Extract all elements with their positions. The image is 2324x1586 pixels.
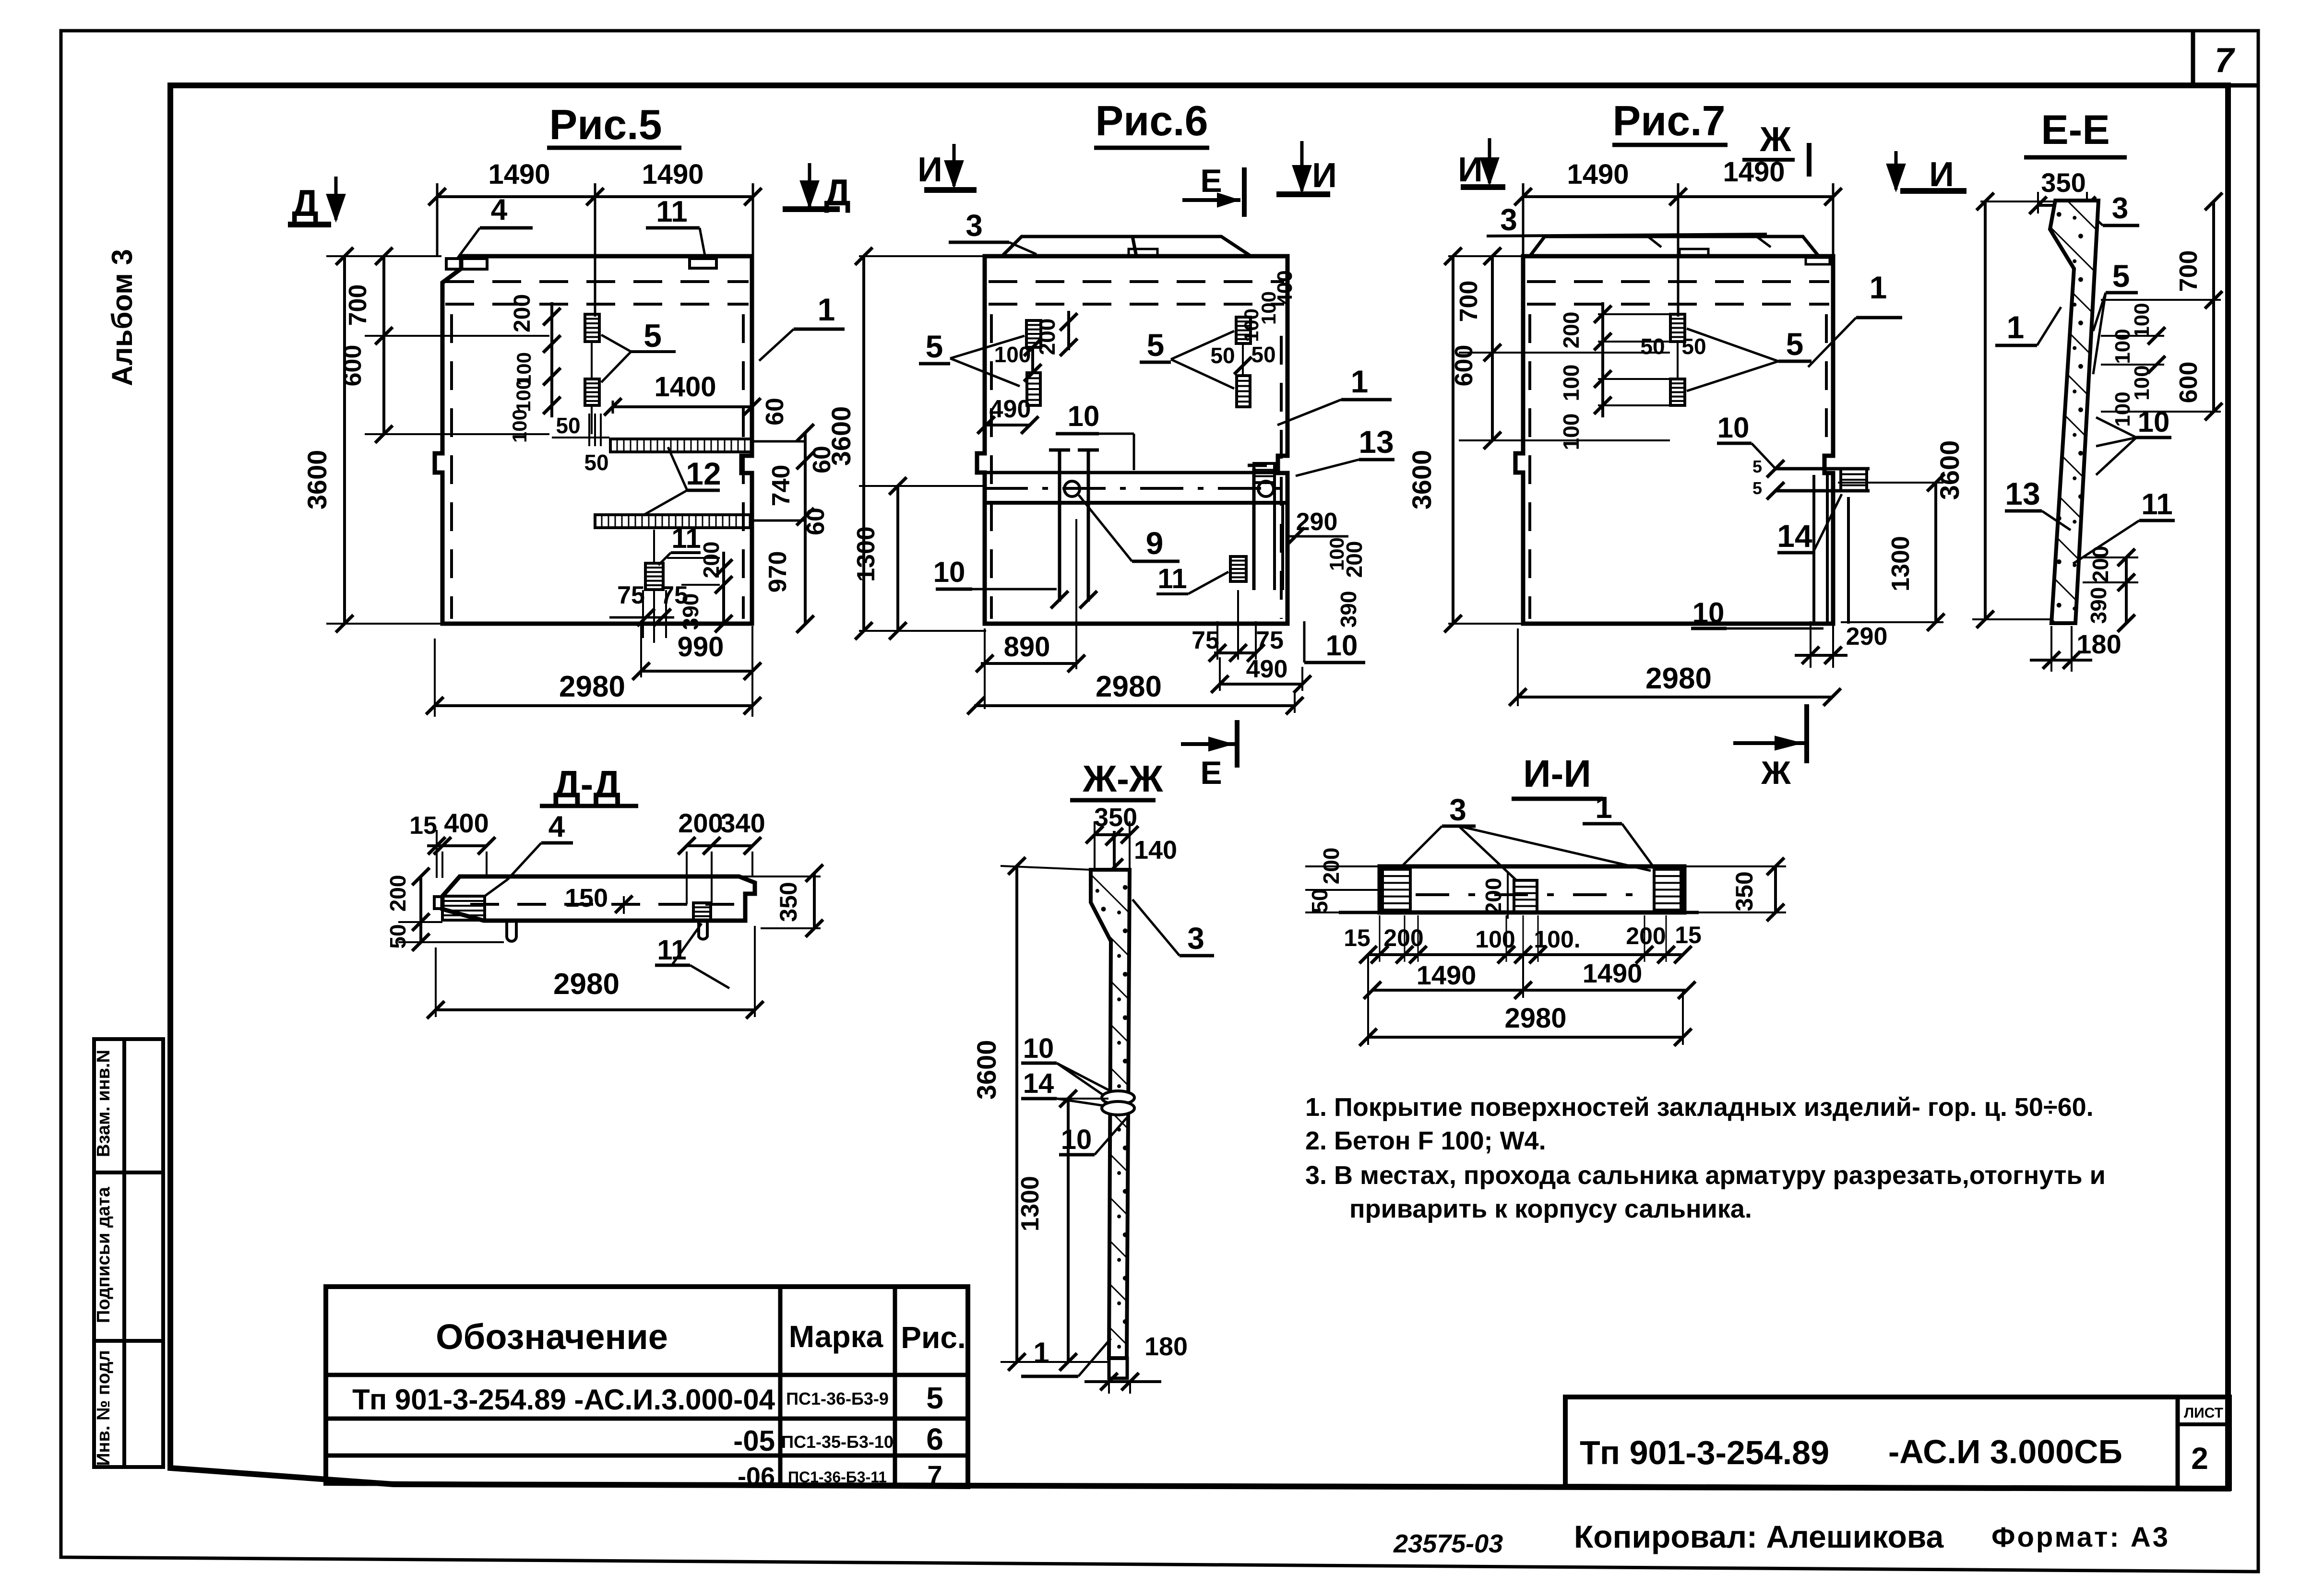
svg-text:10: 10 xyxy=(1326,629,1358,662)
svg-text:Д-Д: Д-Д xyxy=(553,763,621,805)
svg-text:1300: 1300 xyxy=(1887,536,1915,592)
svg-text:5: 5 xyxy=(1147,327,1165,363)
svg-text:Копировал: Алешикова: Копировал: Алешикова xyxy=(1574,1519,1944,1554)
svg-text:100: 100 xyxy=(1325,537,1348,571)
svg-text:приварить к корпусу сальник: приварить к корпусу сальника. xyxy=(1349,1195,1752,1223)
svg-text:60: 60 xyxy=(802,508,830,535)
svg-text:970: 970 xyxy=(764,551,792,593)
svg-text:4: 4 xyxy=(491,193,508,226)
svg-text:100: 100 xyxy=(2111,329,2134,364)
svg-text:50: 50 xyxy=(385,924,410,948)
svg-text:350: 350 xyxy=(2041,167,2086,198)
svg-text:60: 60 xyxy=(761,398,789,426)
svg-text:14: 14 xyxy=(1777,518,1812,554)
svg-text:10: 10 xyxy=(1692,597,1725,629)
svg-text:140: 140 xyxy=(1134,836,1177,864)
svg-text:3: 3 xyxy=(1187,921,1204,956)
svg-text:5: 5 xyxy=(1752,478,1762,498)
svg-text:1. Покрытие поверхностей зак: 1. Покрытие поверхностей закладных издел… xyxy=(1305,1093,2094,1122)
svg-text:ПС1-35-Б3-10: ПС1-35-Б3-10 xyxy=(781,1432,894,1452)
svg-text:50: 50 xyxy=(1210,343,1235,368)
svg-text:11: 11 xyxy=(671,523,701,554)
svg-text:100: 100 xyxy=(1475,926,1515,953)
svg-text:200: 200 xyxy=(510,294,535,332)
svg-text:2. Бетон F 100; W4.: 2. Бетон F 100; W4. xyxy=(1305,1126,1546,1155)
svg-text:3. В местах, прохода сальника: 3. В местах, прохода сальника арматуру р… xyxy=(1305,1161,2106,1190)
svg-text:4: 4 xyxy=(548,810,565,843)
svg-text:2980: 2980 xyxy=(553,968,620,1001)
svg-text:13: 13 xyxy=(1359,424,1394,460)
svg-text:1490: 1490 xyxy=(642,159,703,190)
svg-text:990: 990 xyxy=(678,631,724,663)
svg-text:ПС1-36-Б3-11: ПС1-36-Б3-11 xyxy=(788,1468,887,1486)
svg-text:И: И xyxy=(1312,156,1337,195)
svg-text:1: 1 xyxy=(1595,790,1612,825)
svg-text:50: 50 xyxy=(1251,342,1275,367)
svg-text:100: 100 xyxy=(1240,308,1263,342)
svg-text:9: 9 xyxy=(1146,525,1164,561)
svg-text:Е-Е: Е-Е xyxy=(2041,107,2109,153)
svg-text:75: 75 xyxy=(617,581,645,609)
svg-text:Подписьи дата: Подписьи дата xyxy=(94,1186,114,1323)
svg-text:15: 15 xyxy=(1344,924,1371,951)
svg-text:7: 7 xyxy=(927,1460,942,1490)
svg-text:350: 350 xyxy=(1731,871,1758,911)
svg-text:10: 10 xyxy=(1023,1033,1054,1064)
svg-text:1: 1 xyxy=(818,292,835,327)
svg-text:3600: 3600 xyxy=(1406,450,1437,510)
svg-text:75: 75 xyxy=(660,581,688,609)
svg-text:-АС.И 3.000СБ: -АС.И 3.000СБ xyxy=(1888,1433,2122,1470)
svg-text:1490: 1490 xyxy=(1583,958,1643,988)
svg-text:50: 50 xyxy=(1307,888,1332,913)
svg-text:100: 100 xyxy=(2111,391,2134,426)
svg-text:2980: 2980 xyxy=(1096,670,1162,703)
svg-text:Рис.7: Рис.7 xyxy=(1612,97,1725,144)
svg-text:Тп 901-3-254.89: Тп 901-3-254.89 xyxy=(1580,1434,1829,1471)
svg-text:10: 10 xyxy=(1717,412,1750,444)
svg-text:ЛИСТ: ЛИСТ xyxy=(2184,1405,2223,1421)
svg-text:Е: Е xyxy=(1200,755,1222,791)
svg-text:390: 390 xyxy=(1336,591,1361,628)
svg-text:700: 700 xyxy=(344,284,372,326)
svg-text:3600: 3600 xyxy=(826,406,856,466)
svg-text:75: 75 xyxy=(1192,627,1219,654)
svg-text:1: 1 xyxy=(1351,364,1369,399)
svg-text:490: 490 xyxy=(989,395,1031,423)
svg-text:5: 5 xyxy=(926,1381,943,1415)
svg-text:-05: -05 xyxy=(733,1425,775,1457)
svg-text:-06: -06 xyxy=(738,1462,775,1491)
svg-text:1490: 1490 xyxy=(488,159,550,190)
svg-text:ПС1-36-Б3-9: ПС1-36-Б3-9 xyxy=(786,1389,889,1408)
svg-text:1400: 1400 xyxy=(654,371,716,402)
svg-text:600: 600 xyxy=(2175,362,2203,403)
svg-text:23575-03: 23575-03 xyxy=(1393,1529,1503,1558)
svg-text:100: 100 xyxy=(1559,414,1584,450)
svg-text:Ж: Ж xyxy=(1761,755,1791,791)
svg-text:700: 700 xyxy=(2175,250,2203,292)
svg-text:490: 490 xyxy=(1246,655,1288,683)
svg-text:1490: 1490 xyxy=(1567,159,1629,190)
svg-text:Ж-Ж: Ж-Ж xyxy=(1083,757,1163,800)
svg-text:180: 180 xyxy=(2076,629,2121,659)
svg-text:150: 150 xyxy=(565,884,608,912)
svg-text:2: 2 xyxy=(2191,1441,2208,1476)
svg-text:12: 12 xyxy=(686,456,721,491)
svg-text:50: 50 xyxy=(556,413,580,438)
svg-text:200: 200 xyxy=(678,808,723,838)
svg-text:5: 5 xyxy=(2112,258,2130,294)
svg-text:15: 15 xyxy=(1675,922,1702,948)
svg-text:3: 3 xyxy=(1449,793,1466,827)
svg-text:200: 200 xyxy=(385,875,410,912)
svg-text:Марка: Марка xyxy=(789,1319,883,1354)
svg-text:350: 350 xyxy=(775,882,802,922)
svg-text:400: 400 xyxy=(444,808,489,838)
svg-text:5: 5 xyxy=(644,318,662,354)
svg-text:1490: 1490 xyxy=(1417,960,1477,990)
svg-text:14: 14 xyxy=(1023,1068,1054,1099)
svg-text:100: 100 xyxy=(508,409,531,443)
svg-text:200: 200 xyxy=(1559,312,1584,349)
svg-text:Формат: А3: Формат: А3 xyxy=(1991,1522,2170,1553)
svg-text:180: 180 xyxy=(1144,1332,1188,1361)
svg-text:13: 13 xyxy=(2005,476,2040,511)
svg-text:3600: 3600 xyxy=(302,450,332,510)
svg-text:И-И: И-И xyxy=(1523,752,1591,795)
svg-text:50: 50 xyxy=(584,450,608,475)
svg-text:200: 200 xyxy=(2088,546,2113,583)
svg-text:200: 200 xyxy=(1035,319,1060,355)
svg-text:1: 1 xyxy=(1033,1337,1049,1369)
svg-text:3600: 3600 xyxy=(971,1040,1001,1100)
svg-text:100.: 100. xyxy=(1534,926,1580,953)
svg-text:10: 10 xyxy=(1061,1124,1092,1155)
svg-text:340: 340 xyxy=(720,808,765,838)
svg-text:И: И xyxy=(918,151,942,189)
svg-text:290: 290 xyxy=(1846,623,1888,651)
svg-text:6: 6 xyxy=(926,1422,943,1456)
svg-text:Взам. инв.N: Взам. инв.N xyxy=(94,1050,114,1157)
svg-text:1490: 1490 xyxy=(1723,156,1785,188)
svg-text:7: 7 xyxy=(2215,41,2235,80)
svg-text:890: 890 xyxy=(1004,631,1050,663)
svg-text:Ж: Ж xyxy=(1759,120,1791,159)
svg-text:3: 3 xyxy=(965,208,983,243)
svg-text:10: 10 xyxy=(1068,400,1100,432)
svg-text:11: 11 xyxy=(2141,488,2173,521)
svg-text:10: 10 xyxy=(933,556,965,588)
svg-text:100: 100 xyxy=(512,379,535,412)
svg-text:5: 5 xyxy=(926,329,943,364)
svg-text:5: 5 xyxy=(1786,326,1804,362)
svg-text:5: 5 xyxy=(1752,457,1762,476)
svg-text:2980: 2980 xyxy=(1645,662,1712,695)
svg-text:2980: 2980 xyxy=(559,670,625,703)
svg-text:1: 1 xyxy=(2007,309,2025,345)
svg-text:700: 700 xyxy=(1455,281,1483,322)
svg-text:740: 740 xyxy=(767,465,795,507)
svg-text:1: 1 xyxy=(1870,270,1887,305)
svg-text:3600: 3600 xyxy=(1934,440,1965,500)
svg-text:3: 3 xyxy=(2112,192,2128,225)
svg-text:Тп 901-3-254.89 -АС.И.3.000-04: Тп 901-3-254.89 -АС.И.3.000-04 xyxy=(352,1384,775,1416)
svg-text:1300: 1300 xyxy=(852,526,880,582)
svg-text:200: 200 xyxy=(699,542,724,579)
svg-text:3: 3 xyxy=(1500,202,1517,237)
svg-text:200: 200 xyxy=(1319,848,1344,885)
svg-text:Д: Д xyxy=(292,182,319,224)
svg-text:15: 15 xyxy=(409,812,437,840)
svg-text:1300: 1300 xyxy=(1016,1176,1044,1231)
svg-text:И: И xyxy=(1458,151,1483,189)
svg-text:200: 200 xyxy=(1626,923,1666,949)
svg-text:600: 600 xyxy=(1450,345,1478,387)
svg-text:11: 11 xyxy=(656,195,688,228)
svg-text:Альбом 3: Альбом 3 xyxy=(106,249,138,386)
svg-text:Инв. № подл: Инв. № подл xyxy=(94,1350,114,1466)
svg-text:2980: 2980 xyxy=(1504,1003,1566,1034)
svg-text:100: 100 xyxy=(1559,365,1584,402)
svg-text:11: 11 xyxy=(1157,563,1187,594)
svg-text:Рис.5: Рис.5 xyxy=(549,101,662,148)
svg-text:50: 50 xyxy=(1640,334,1665,359)
svg-text:Рис.: Рис. xyxy=(901,1320,965,1355)
svg-text:390: 390 xyxy=(2086,587,2111,624)
svg-text:10: 10 xyxy=(2138,406,2170,438)
svg-text:Обозначение: Обозначение xyxy=(436,1317,668,1357)
svg-text:200: 200 xyxy=(1481,878,1506,915)
svg-text:600: 600 xyxy=(339,345,367,387)
svg-text:Рис.6: Рис.6 xyxy=(1095,97,1208,144)
svg-text:50: 50 xyxy=(1681,334,1706,359)
